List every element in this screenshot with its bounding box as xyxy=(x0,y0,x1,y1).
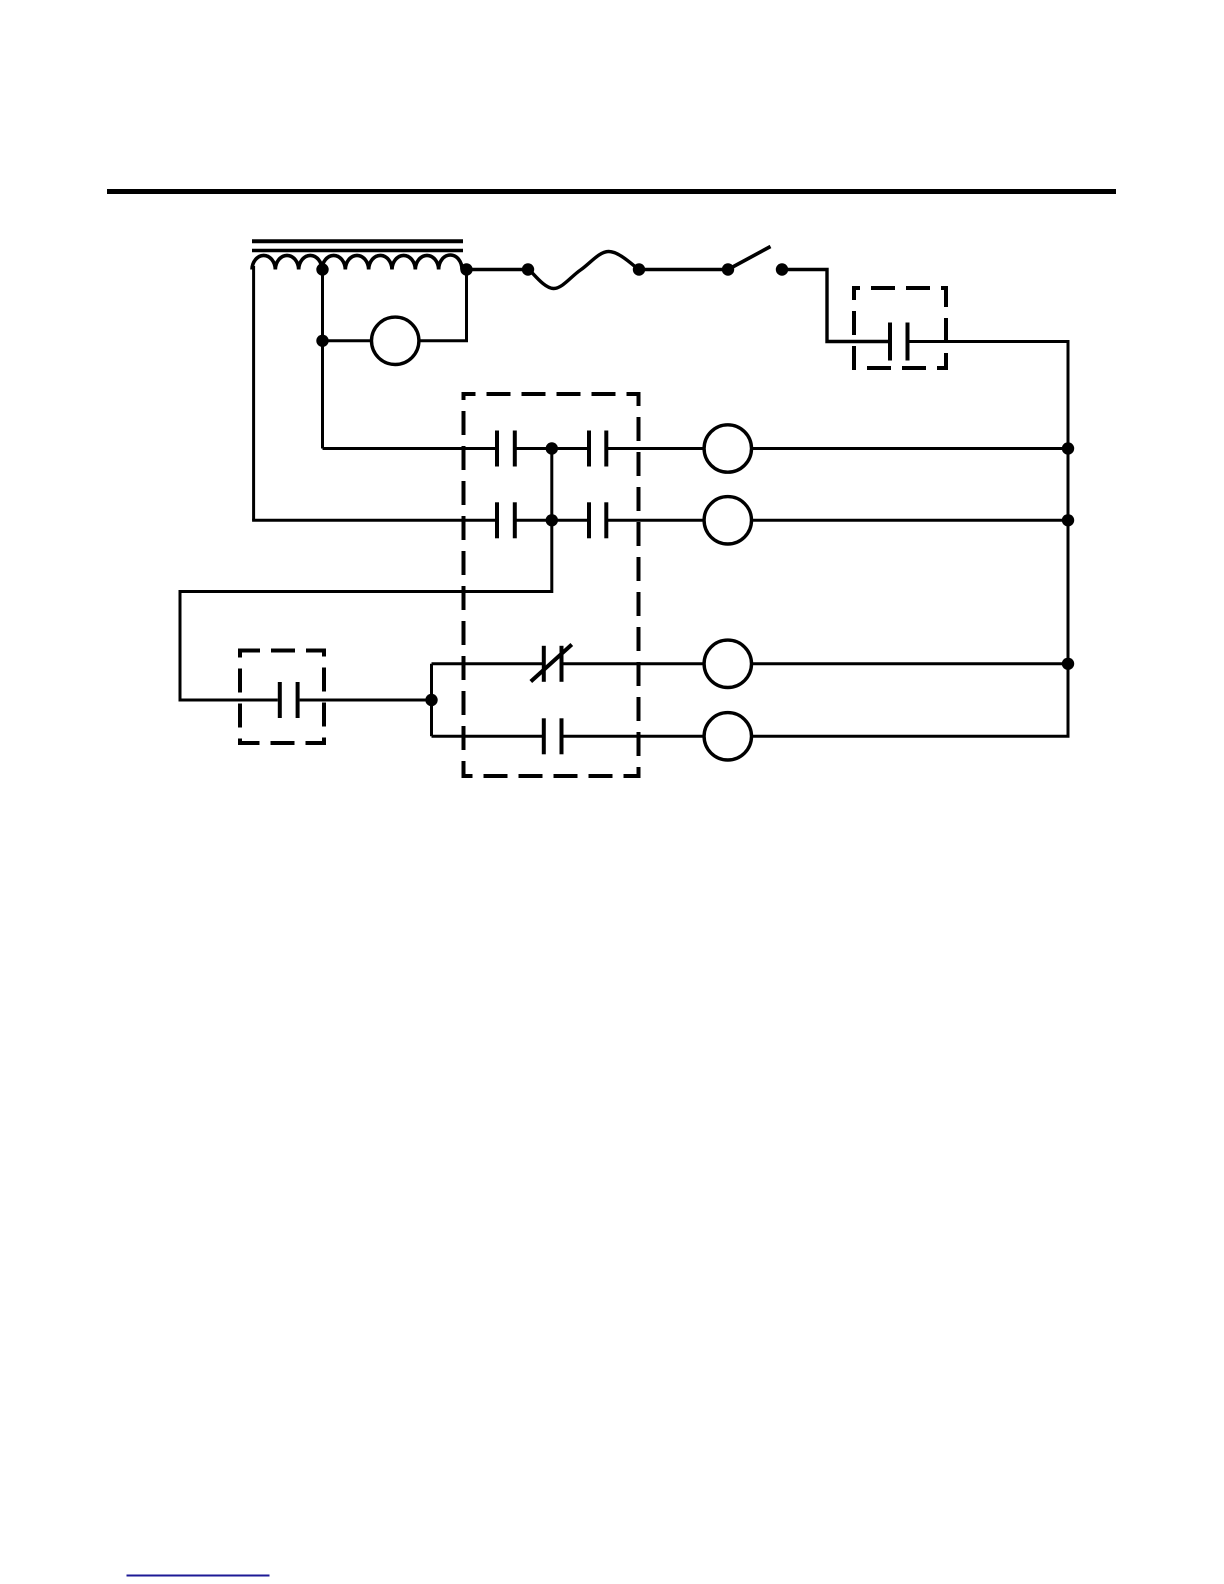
wire: winding right end to fuse xyxy=(467,268,529,271)
capacitor C1 plates xyxy=(890,323,908,361)
NO contact D plates xyxy=(544,718,562,754)
enclosure (dashed) around capacitor C1 xyxy=(854,288,946,368)
NO contact B1 plates xyxy=(497,502,515,538)
wire: coil K3 to bus xyxy=(752,662,1069,665)
coil K4 xyxy=(704,713,751,760)
wire: winding left terminal down to rung 2 corner xyxy=(252,266,255,520)
node: bus junction rung 3 xyxy=(1062,658,1074,670)
coil K2 xyxy=(704,497,751,544)
wire: rung 2 to coil K2 xyxy=(606,519,704,522)
wire: capacitor C2 to branch junction xyxy=(300,699,432,702)
node: fuse left terminal xyxy=(522,263,534,275)
NO contact A1 plates xyxy=(497,431,515,467)
wire: switch to capacitor C1 xyxy=(782,270,888,342)
wire: tap down to rung 1 corner xyxy=(321,270,324,449)
enclosure (dashed) relay contact block xyxy=(464,394,639,776)
wire: rung 2 left segment xyxy=(252,519,497,522)
wire: lamp to winding right end xyxy=(419,270,467,341)
wire: rung 1 left segment xyxy=(323,447,498,450)
wire: coil K4 to bus corner xyxy=(752,735,1070,738)
enclosure (dashed) around capacitor C2 xyxy=(240,651,324,744)
transformer T1 core xyxy=(252,241,463,250)
node: winding tap junction xyxy=(316,263,328,275)
NO contact A2 plates xyxy=(589,431,606,467)
NO contact B2 plates xyxy=(589,502,606,538)
footer link underline xyxy=(127,1575,270,1577)
node: lamp branch junction xyxy=(316,335,328,347)
node: bus junction rung 2 xyxy=(1062,514,1074,526)
node: fuse right terminal xyxy=(633,263,645,275)
capacitor C2 plates xyxy=(280,682,298,718)
fuse F1 (wavy conductor) xyxy=(529,251,639,288)
wire: junction to lamp xyxy=(323,339,372,342)
coil K3 xyxy=(704,640,751,687)
node: winding right end junction xyxy=(460,263,472,275)
wire: coil K2 to bus xyxy=(752,519,1069,522)
wire: fuse to switch xyxy=(639,268,728,271)
lamp DS1 xyxy=(372,317,419,364)
wire: rung 2 middle segment xyxy=(515,519,589,522)
NC contact C plates xyxy=(544,646,562,682)
node: bus junction rung 1 xyxy=(1062,442,1074,454)
switch S1 blade xyxy=(728,247,771,270)
wire: rung 4 left segment xyxy=(432,735,544,738)
wire: rung 3 left segment xyxy=(432,662,544,665)
wire: rung junctions down, left and down to capacitor C2 xyxy=(180,449,552,701)
wire: rung 3 to coil K3 xyxy=(562,662,705,665)
wire: rung 1 middle segment xyxy=(515,447,589,450)
horizontal rule xyxy=(107,189,1116,194)
transformer T1 winding xyxy=(252,255,462,270)
node: rung 1 junction xyxy=(546,442,558,454)
node: branch junction xyxy=(425,694,437,706)
wire: coil K1 to bus xyxy=(752,447,1069,450)
coil K1 xyxy=(704,425,751,472)
wire: rung 1 to coil K1 xyxy=(606,447,704,450)
switch S1 right terminal node xyxy=(776,263,788,275)
wire: capacitor C1 to right bus xyxy=(910,342,1069,737)
node: rung 2 junction xyxy=(546,514,558,526)
switch S1 pivot node xyxy=(722,263,734,275)
wire: branch vertical xyxy=(430,664,433,737)
wire: rung 4 to coil K4 xyxy=(562,735,705,738)
NC contact C slash xyxy=(531,645,572,682)
